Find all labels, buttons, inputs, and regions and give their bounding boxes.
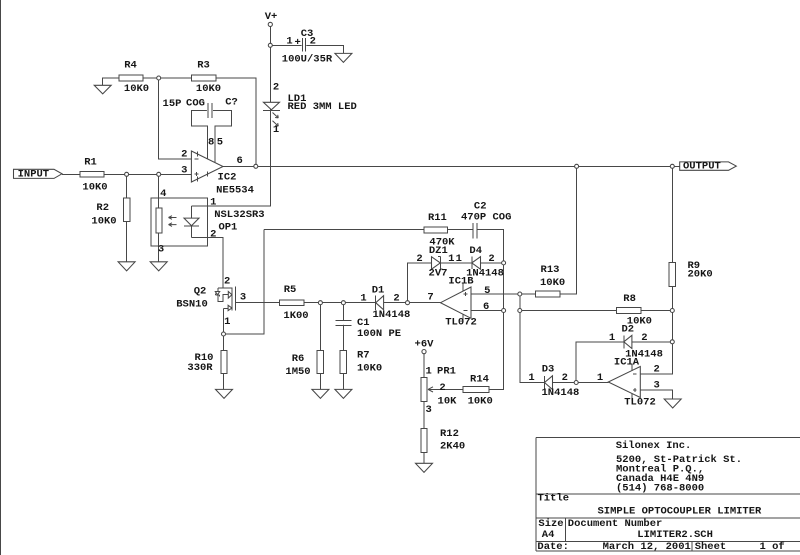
- svg-text:Date:: Date:: [537, 541, 569, 553]
- svg-text:3: 3: [653, 380, 659, 392]
- svg-text:10K0: 10K0: [357, 363, 382, 375]
- terminal OUTPUT: [680, 160, 737, 172]
- node junction IC1B pin5: [518, 292, 522, 296]
- LED LD1: [263, 82, 357, 137]
- svg-text:330R: 330R: [187, 362, 213, 374]
- diode D2 1N4148: [609, 323, 663, 360]
- ground at C3: [335, 53, 352, 62]
- svg-text:1: 1: [456, 253, 462, 265]
- svg-text:2: 2: [181, 149, 187, 161]
- diode D4 1N4148: [466, 245, 504, 279]
- svg-text:5: 5: [484, 285, 490, 297]
- svg-text:COG: COG: [186, 98, 205, 110]
- ground at R4: [94, 85, 111, 94]
- svg-text:2K40: 2K40: [440, 441, 465, 453]
- svg-text:(514) 768-8000: (514) 768-8000: [616, 483, 704, 495]
- ground at R12: [416, 463, 433, 472]
- wire detector line Q2 pin3 through R5 D1 to IC1B pin7: [235, 302, 440, 304]
- svg-text:6: 6: [237, 155, 243, 167]
- svg-text:10K: 10K: [438, 396, 458, 408]
- resistor R5: [280, 284, 309, 322]
- node junction D2 IC1A pin2: [670, 340, 674, 344]
- wire R8 line: [520, 310, 673, 312]
- wire OP1 pin2 to Q2 drain: [192, 238, 224, 289]
- svg-text:March 12, 2001: March 12, 2001: [603, 541, 691, 553]
- node junction IC1B pin6: [502, 309, 506, 313]
- svg-text:2: 2: [273, 82, 279, 94]
- svg-text:A4: A4: [542, 529, 555, 541]
- svg-text:R13: R13: [541, 264, 560, 276]
- svg-text:D4: D4: [469, 245, 482, 257]
- title block frame: [536, 438, 800, 551]
- optocoupler OP1 NSL32SR3: [151, 188, 265, 256]
- svg-text:10K0: 10K0: [91, 216, 116, 228]
- node junction D1 IC1B pin7: [406, 301, 410, 305]
- svg-text:2: 2: [416, 253, 422, 265]
- diode D3 1N4148: [528, 364, 579, 400]
- node junction output R9: [670, 164, 674, 168]
- svg-text:C?: C?: [225, 96, 238, 108]
- svg-text:RED 3MM LED: RED 3MM LED: [288, 101, 357, 113]
- svg-text:NSL32SR3: NSL32SR3: [214, 209, 264, 221]
- svg-text:4: 4: [160, 188, 166, 200]
- svg-text:7: 7: [427, 291, 433, 303]
- node junction R4 R3: [157, 76, 161, 80]
- resistor R3: [191, 60, 221, 95]
- svg-text:D2: D2: [621, 323, 634, 335]
- node junction V+ C3: [268, 43, 272, 47]
- svg-text:1N4148: 1N4148: [541, 387, 579, 399]
- svg-text:R2: R2: [96, 202, 109, 214]
- svg-text:1: 1: [210, 197, 216, 209]
- node junction D3 IC1A output: [574, 381, 578, 385]
- resistor R8: [617, 293, 652, 328]
- wire +6V through PR1 and R12 to ground: [423, 354, 425, 464]
- diode D1 1N4148: [360, 284, 410, 321]
- wire R6 branch to ground: [319, 303, 321, 390]
- resistor R11: [424, 212, 455, 249]
- svg-text:SIMPLE OPTOCOUPLER LIMITER: SIMPLE OPTOCOUPLER LIMITER: [598, 506, 763, 518]
- power V+: [265, 11, 278, 27]
- svg-text:IC1A: IC1A: [614, 356, 640, 368]
- resistor R9: [669, 260, 713, 286]
- transistor Q2 BSN10: [176, 276, 246, 328]
- wire output line from IC2 to OUTPUT terminal: [223, 165, 680, 167]
- wire C1 R7 branch to ground: [342, 303, 344, 390]
- svg-text:R4: R4: [124, 60, 137, 72]
- wire D1 node up to DZ1 D4 limiter line: [408, 263, 504, 303]
- zener diode DZ1 2V7: [416, 245, 462, 279]
- wire IC1B pin6 to feedback node: [471, 310, 504, 312]
- node junction D4 feedback: [502, 261, 506, 265]
- svg-text:470P COG: 470P COG: [461, 211, 511, 223]
- svg-text:R5: R5: [284, 284, 297, 296]
- svg-text:NE5534: NE5534: [216, 185, 254, 197]
- capacitor C? 15P COG: [163, 96, 238, 118]
- ground at R7: [335, 389, 352, 398]
- node junction R8 left: [518, 309, 522, 313]
- wire pin5 node down to D3 line and to IC1A output: [520, 294, 609, 383]
- svg-text:100N PE: 100N PE: [357, 328, 401, 340]
- ground at OP1 pin3: [150, 262, 167, 271]
- svg-text:1: 1: [224, 316, 230, 328]
- resistor R1: [80, 157, 108, 194]
- terminal INPUT: [14, 168, 63, 180]
- svg-text:1: 1: [528, 372, 534, 384]
- svg-text:1: 1: [597, 372, 603, 384]
- wire R4-R3 feedback line with branch to IC2 pin2 and down to output node: [103, 78, 256, 166]
- svg-text:2: 2: [641, 332, 647, 344]
- svg-text:R1: R1: [84, 157, 97, 169]
- svg-text:3: 3: [181, 165, 187, 177]
- svg-text:1: 1: [273, 124, 279, 136]
- wire R11 C2 line and down right side to R14 line: [264, 230, 504, 390]
- svg-text:2: 2: [393, 293, 399, 305]
- svg-text:2: 2: [310, 36, 316, 48]
- sheet left border: [0, 0, 2, 555]
- svg-text:1: 1: [426, 365, 432, 377]
- svg-text:INPUT: INPUT: [18, 168, 50, 180]
- node junction R5 C1: [341, 301, 345, 305]
- capacitor C2: [461, 201, 511, 239]
- wire output line down through R9 R8 D2 to IC1A pin2: [640, 166, 672, 374]
- wire IC1A pin3 to ground: [640, 390, 672, 399]
- node junction IC2 output: [254, 164, 258, 168]
- svg-text:1: 1: [286, 36, 292, 48]
- resistor R10: [187, 350, 227, 374]
- ground at IC1A pin3: [664, 399, 681, 408]
- node junction R5 R6: [318, 301, 322, 305]
- svg-text:R3: R3: [197, 60, 210, 72]
- svg-text:IC1B: IC1B: [448, 276, 474, 288]
- wire IC1A output up to D2 line: [576, 342, 672, 383]
- svg-text:1: 1: [448, 253, 454, 265]
- node junction R1 R2: [125, 172, 129, 176]
- svg-text:Sheet: Sheet: [695, 541, 727, 553]
- svg-text:R11: R11: [428, 212, 447, 224]
- svg-text:10K0: 10K0: [196, 83, 221, 95]
- svg-text:100U/35R: 100U/35R: [282, 54, 333, 66]
- node junction output R13: [575, 164, 579, 168]
- svg-text:2: 2: [488, 253, 494, 265]
- svg-text:1M50: 1M50: [285, 366, 310, 378]
- svg-text:OUTPUT: OUTPUT: [683, 160, 721, 172]
- capacitor C3: [282, 28, 333, 66]
- op-amp IC2 NE5534: [181, 136, 254, 196]
- svg-text:1N4148: 1N4148: [372, 309, 410, 321]
- node junction input OP1 pin4: [157, 172, 161, 176]
- wire Q2 source to R10 junction and up to R11 line: [224, 230, 264, 334]
- svg-text:R7: R7: [357, 350, 370, 362]
- ground at R10: [216, 389, 233, 398]
- svg-text:C1: C1: [357, 317, 370, 329]
- potentiometer PR1 10K: [421, 365, 457, 416]
- svg-text:Title: Title: [538, 493, 570, 505]
- svg-text:D1: D1: [372, 284, 385, 296]
- node junction Q2 source R10: [222, 332, 226, 336]
- svg-text:1 of: 1 of: [760, 541, 785, 553]
- svg-text:DZ1: DZ1: [429, 245, 448, 257]
- wire V+ down through LD1 to OP1 pin1: [192, 27, 271, 207]
- svg-text:2: 2: [224, 276, 230, 288]
- svg-text:3: 3: [240, 292, 246, 304]
- svg-text:R6: R6: [292, 353, 305, 365]
- wire input line: [62, 173, 191, 175]
- ground at R6: [312, 389, 329, 398]
- svg-text:10K0: 10K0: [540, 277, 565, 289]
- op-amp IC1B TL072: [427, 276, 490, 329]
- wire R2 branch down to ground: [126, 174, 128, 261]
- svg-text:IC2: IC2: [218, 172, 237, 184]
- svg-text:TL072: TL072: [445, 316, 477, 328]
- capacitor C1: [335, 317, 401, 340]
- svg-text:R8: R8: [623, 293, 636, 305]
- resistor R12: [421, 428, 465, 453]
- svg-text:3: 3: [426, 404, 432, 416]
- svg-text:TL072: TL072: [624, 396, 656, 408]
- wire C3 branch to ground: [270, 45, 343, 53]
- svg-text:2: 2: [653, 364, 659, 376]
- svg-text:+6V: +6V: [415, 338, 435, 350]
- svg-text:2: 2: [439, 382, 445, 394]
- resistor R4: [119, 60, 149, 95]
- svg-text:8: 8: [208, 136, 214, 148]
- svg-text:BSN10: BSN10: [176, 299, 208, 311]
- wire R10 down to ground: [223, 334, 225, 389]
- svg-text:PR1: PR1: [437, 365, 456, 377]
- svg-text:V+: V+: [265, 11, 278, 23]
- node junction R8 R9: [670, 309, 674, 313]
- resistor R2: [91, 198, 129, 228]
- power +6V: [415, 338, 435, 353]
- svg-text:D3: D3: [542, 364, 555, 376]
- resistor R14: [463, 374, 493, 408]
- IC2 compensation pins 8 5 and cap C? staple: [191, 111, 231, 165]
- svg-text:10K0: 10K0: [468, 396, 493, 408]
- svg-text:1K00: 1K00: [283, 310, 308, 322]
- svg-text:20K0: 20K0: [688, 269, 713, 281]
- svg-text:10K0: 10K0: [124, 83, 149, 95]
- svg-text:5: 5: [217, 136, 223, 148]
- svg-text:1: 1: [360, 293, 366, 305]
- svg-text:6: 6: [483, 301, 489, 313]
- svg-text:Q2: Q2: [194, 286, 207, 298]
- svg-text:Silonex Inc.: Silonex Inc.: [616, 440, 692, 452]
- svg-text:3: 3: [158, 244, 164, 256]
- svg-text:R12: R12: [440, 428, 459, 440]
- svg-text:10K0: 10K0: [82, 181, 107, 193]
- svg-text:2V7: 2V7: [429, 267, 448, 279]
- wire IC1B pin5 line through R13 up to output line: [471, 166, 577, 294]
- svg-text:OP1: OP1: [218, 222, 237, 234]
- svg-text:R14: R14: [470, 374, 489, 386]
- resistor R6: [285, 350, 323, 378]
- ground at R2: [118, 262, 135, 271]
- resistor R13: [536, 264, 566, 297]
- svg-text:2: 2: [210, 229, 216, 241]
- resistor R7: [340, 350, 382, 375]
- svg-text:1: 1: [609, 332, 615, 344]
- svg-text:+: +: [294, 37, 300, 49]
- svg-text:15P: 15P: [163, 98, 182, 110]
- wire OP1 pin4 branch down through optocoupler to ground: [158, 174, 160, 261]
- svg-text:2: 2: [562, 372, 568, 384]
- svg-text:LIMITER2.SCH: LIMITER2.SCH: [637, 529, 713, 541]
- op-amp IC1A TL072: [597, 356, 660, 408]
